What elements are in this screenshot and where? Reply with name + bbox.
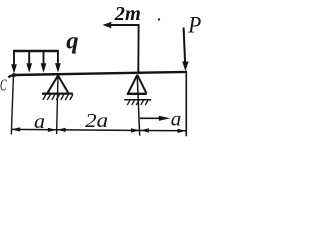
extension line through support A [57,76,58,135]
force P arrowhead [182,62,188,72]
support B ground line [124,99,151,101]
distributed load arrow 3 [41,50,45,71]
support B pin triangle [128,75,146,93]
svg-text:a: a [171,109,182,130]
ink speck [158,18,160,20]
moment 2m arrow line [106,25,139,73]
extension line through support B [137,75,140,136]
dim arrowhead right into A [48,128,57,132]
leader arrow for right a [140,117,161,119]
extension line at C [11,76,13,135]
support A seat line [42,92,73,94]
beam CB main line [8,72,187,77]
dim arrowhead left at C [12,127,21,131]
dim arrowhead right at end [178,129,187,133]
distributed load q top line [13,50,59,52]
support B ground hatching [127,100,148,105]
distributed load arrow 1 [12,50,16,72]
support A ground hatching [43,94,73,100]
distributed load arrow 2 [27,50,31,71]
dim arrowhead left from B [140,128,149,132]
leader arrowhead [159,116,171,121]
dim arrowhead right into B [131,128,140,132]
svg-text:2a: 2a [85,110,108,132]
extension line at right end [185,72,187,136]
svg-text:P: P [187,13,201,38]
dimension line [11,129,186,130]
svg-text:q: q [66,29,78,55]
support B seat line [127,93,147,95]
distributed load arrow 4 [56,50,60,71]
dim arrowhead left from A [57,128,66,132]
svg-text:a: a [34,111,45,133]
support A pin triangle [48,76,69,93]
moment 2m arrowhead [103,22,112,29]
node C junction dot [12,73,16,77]
force P line [184,28,186,64]
svg-text:C: C [0,76,7,95]
svg-text:2m: 2m [114,3,141,25]
